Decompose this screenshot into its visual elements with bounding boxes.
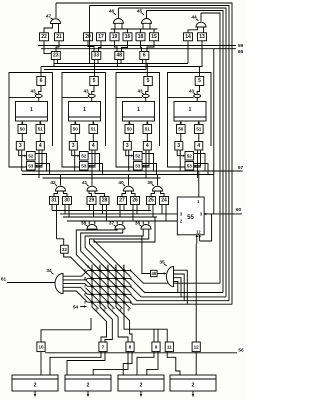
wire box31 down2: [56, 205, 58, 239]
arrow 49-35: [157, 272, 166, 275]
svg-text:4: 4: [99, 265, 101, 269]
wire 45 up-stem: [146, 11, 148, 19]
block C valve 43: [142, 94, 149, 97]
collector 37 label: [109, 221, 116, 227]
unit 2 bottom arrow: [34, 391, 37, 397]
unit 55 label: [187, 215, 194, 221]
block B reg 52: [80, 152, 89, 161]
wire 34 out 1: [63, 270, 88, 276]
block B wire 51-4: [92, 134, 94, 142]
block D wire valve to unit 1: [196, 98, 198, 102]
svg-text:5: 5: [198, 78, 201, 84]
svg-text:38: 38: [81, 221, 87, 227]
wire box8 down2: [123, 352, 132, 375]
block A counter 50: [18, 125, 27, 134]
block D counter 50: [177, 125, 186, 134]
svg-text:11: 11: [167, 345, 172, 350]
matrix column 5: [123, 265, 125, 307]
collector 46 label: [109, 9, 116, 15]
wire col1 to amp: [92, 307, 107, 342]
register 26: [131, 197, 140, 205]
collector 41: [87, 186, 97, 191]
amplifier 7: [99, 342, 107, 352]
matrix row 3: [88, 285, 129, 287]
register 22: [40, 33, 49, 41]
block D wire 4 down: [197, 150, 199, 178]
block A gate 3: [16, 142, 24, 151]
svg-text:5: 5: [147, 78, 150, 84]
wire 55 top stem: [198, 172, 200, 198]
svg-text:28: 28: [102, 198, 108, 204]
register 20: [84, 33, 93, 41]
collector 45 label: [137, 9, 144, 15]
block B outline: [62, 73, 106, 168]
bus segment y213.9 to 55 pin3: [60, 213, 177, 215]
block A wire 3 down: [21, 150, 23, 171]
wire 44 to box13: [203, 27, 205, 33]
collector 39: [153, 186, 163, 191]
block D wire 52 out: [194, 154, 205, 172]
svg-text:42: 42: [50, 180, 56, 186]
block D wire 3 down: [179, 150, 181, 171]
block C counter 51: [143, 125, 152, 134]
svg-text:4: 4: [146, 143, 149, 149]
wire bus line 1: [56, 3, 232, 304]
block C valve feed line: [116, 96, 142, 98]
net 65 label: [238, 49, 244, 55]
bus segment y217: [63, 216, 157, 218]
svg-text:3: 3: [177, 143, 180, 149]
svg-text:52: 52: [81, 153, 87, 158]
matrix column 3: [107, 265, 109, 307]
block B counter 50: [71, 125, 80, 134]
svg-text:53: 53: [135, 163, 141, 168]
wire box6b down: [143, 60, 147, 70]
register 28: [100, 197, 109, 205]
register 48: [115, 52, 124, 60]
unit 2 bottom arrow: [192, 391, 195, 397]
svg-text:31: 31: [51, 198, 57, 204]
wire 45 to box18: [141, 23, 144, 33]
register 13: [198, 33, 207, 41]
block A outline: [9, 73, 53, 168]
svg-text:53: 53: [28, 163, 34, 168]
amplifier 10: [37, 342, 45, 352]
block C unit 1: [123, 102, 155, 122]
svg-text:45: 45: [137, 9, 143, 15]
svg-text:9: 9: [155, 345, 158, 350]
collector 44 label: [191, 15, 198, 21]
matrix top labels: [87, 265, 124, 269]
matrix bottom labels: [96, 308, 130, 312]
block D valve feed line: [168, 96, 194, 98]
block D reg 52: [185, 152, 194, 161]
matrix column 2: [99, 265, 101, 307]
amplifier 9: [152, 342, 160, 352]
register 31: [50, 197, 59, 205]
collector 47 label: [46, 14, 53, 20]
wire row4 to bus: [128, 294, 229, 300]
block A wire 6 to valve: [39, 86, 41, 95]
svg-text:65: 65: [238, 49, 244, 55]
collector 38 label: [81, 221, 88, 227]
block C wire 52 out: [142, 154, 153, 172]
block A valve 43 label: [30, 89, 37, 95]
matrix diagonals: [86, 264, 131, 309]
wire box20 down: [88, 41, 94, 52]
svg-text:53: 53: [187, 163, 193, 168]
net 56 line: [45, 352, 237, 354]
matrix row 2: [88, 277, 129, 279]
wire box27 down: [120, 205, 124, 218]
register 29: [87, 197, 96, 205]
svg-text:7: 7: [84, 285, 86, 289]
wire 41 to left box: [89, 191, 92, 197]
svg-text:12: 12: [196, 230, 201, 235]
wire box17 down: [99, 41, 102, 52]
wire 47 to box22: [44, 24, 53, 33]
svg-text:29: 29: [89, 198, 95, 204]
block B wire valve to unit 1: [91, 98, 93, 102]
matrix row 5: [88, 301, 129, 303]
block C wire 51-4: [146, 134, 148, 142]
wire box48 down: [118, 60, 122, 67]
unit 55 pin1: [197, 199, 200, 204]
wire box24 down: [162, 205, 166, 222]
svg-text:39: 39: [147, 180, 153, 186]
wire box22 down: [44, 41, 51, 54]
unit 55 pin2: [180, 218, 183, 223]
svg-text:9: 9: [84, 301, 86, 305]
wire 44 up-stem: [200, 13, 202, 22]
block C wire 4 to 53: [142, 150, 149, 167]
svg-text:5: 5: [93, 78, 96, 84]
block A control box 6: [37, 77, 46, 86]
wire col3 to amp: [108, 307, 128, 342]
block D counter 51: [195, 125, 204, 134]
block A reg 52: [27, 152, 36, 161]
svg-text:61: 61: [1, 277, 7, 283]
bus segment y210.5: [52, 210, 151, 212]
wire 47 up-stem: [55, 3, 57, 18]
amplifier 8: [126, 342, 134, 352]
wire box28 down: [103, 205, 107, 222]
svg-text:4: 4: [92, 143, 95, 149]
wire fan-in 5: [94, 217, 155, 270]
register 32: [61, 245, 69, 253]
svg-text:2: 2: [115, 265, 117, 269]
unit 2: [12, 375, 58, 391]
wire 38 up-stems: [89, 221, 95, 224]
collector 42: [56, 186, 66, 191]
distributor 35: [167, 267, 174, 287]
wire 41 to right box: [95, 191, 105, 197]
register 17: [97, 33, 106, 41]
unit 2 bottom arrow: [87, 391, 90, 397]
svg-text:34: 34: [46, 268, 52, 274]
wire bus line 5: [201, 13, 220, 283]
block A valve feed line: [9, 96, 35, 98]
svg-text:56: 56: [238, 348, 244, 354]
svg-text:30: 30: [64, 198, 70, 204]
svg-text:13: 13: [199, 34, 205, 40]
register 33: [92, 52, 101, 60]
net 61 label: [1, 277, 7, 283]
unit 2: [118, 375, 164, 391]
svg-text:52: 52: [28, 153, 34, 158]
wire 34 out 3: [63, 284, 88, 287]
wire 39 up-stem: [157, 175, 159, 186]
wire box15 down: [147, 41, 154, 52]
svg-text:50: 50: [73, 127, 79, 132]
block A wire 3 to 52: [19, 150, 27, 157]
svg-text:35: 35: [159, 260, 165, 266]
svg-text:1: 1: [30, 107, 33, 113]
wire 40 to right box: [132, 191, 136, 197]
block B counter 51: [89, 125, 98, 134]
distributor 34 label: [46, 268, 53, 274]
distributor 35 label: [159, 260, 166, 266]
block C reg 52: [134, 152, 143, 161]
wire bus line 2: [90, 6, 230, 301]
svg-text:48: 48: [117, 53, 123, 59]
wire drop to 5C: [146, 64, 148, 77]
block D arrow 51 up: [198, 121, 201, 124]
wire 39 to right box: [161, 191, 165, 197]
svg-text:50: 50: [178, 127, 184, 132]
wire box12 down: [195, 352, 197, 375]
block C wire 4 down: [145, 150, 147, 178]
wire 34 out 2: [63, 278, 88, 280]
wire 38 down-stem: [91, 228, 93, 231]
collector 46: [113, 19, 123, 24]
wire box8 down: [93, 352, 128, 375]
svg-text:6: 6: [87, 265, 89, 269]
bus segment y221 to 55 pin2: [67, 220, 177, 222]
block C wire 53 out: [142, 164, 156, 175]
block D wire 4 to 53: [194, 150, 201, 167]
wire 35 out 3: [174, 278, 182, 297]
net 61 line: [7, 282, 55, 284]
block D reg 53: [185, 162, 194, 171]
svg-text:53: 53: [81, 163, 87, 168]
svg-text:2: 2: [140, 383, 143, 389]
block C gate 3: [123, 142, 131, 151]
svg-text:18: 18: [138, 34, 144, 40]
svg-text:26: 26: [132, 198, 138, 204]
wire 40 to left box: [122, 191, 126, 197]
block B wire 3 to 52: [72, 150, 80, 157]
svg-text:1: 1: [189, 107, 192, 113]
wire 46 up-stem: [117, 8, 119, 19]
wire drop to 6A: [40, 67, 42, 77]
svg-text:49: 49: [151, 271, 156, 276]
wire box7 down2: [67, 352, 105, 375]
collector 36: [141, 225, 151, 230]
block C control box 5: [144, 77, 153, 86]
block C wire valve to unit 1: [145, 98, 147, 102]
svg-text:1: 1: [137, 107, 140, 113]
svg-text:33: 33: [94, 53, 100, 59]
wire box7 down: [50, 352, 101, 375]
bus segment y63.5: [54, 63, 188, 65]
svg-text:1: 1: [123, 265, 125, 269]
block B wire 4 down: [91, 150, 93, 178]
wire 36 up-stems: [143, 221, 149, 224]
wire 44 to box14: [188, 27, 198, 33]
block A wire 53 out: [35, 164, 49, 175]
wire box13 down: [200, 41, 203, 77]
collector 40 label: [118, 180, 125, 186]
svg-text:3: 3: [107, 265, 109, 269]
wire amp9 taps: [154, 329, 158, 342]
block A wire valve to unit 1: [38, 98, 40, 102]
svg-text:15: 15: [151, 34, 157, 40]
wire box9 down: [137, 352, 154, 375]
unit 55 pin3: [180, 211, 183, 216]
unit 2: [65, 375, 111, 391]
wire box14 down: [187, 41, 189, 64]
wire bus2 down-stem: [89, 6, 91, 65]
wire col5 to amp11: [124, 307, 167, 342]
block D gate 3: [175, 142, 183, 151]
wire 49 feed: [142, 236, 151, 274]
svg-text:6: 6: [143, 53, 146, 59]
wire box10 up: [41, 318, 91, 342]
register 30: [63, 197, 72, 205]
collector 41 label: [82, 180, 89, 186]
block A wire 4 down: [38, 150, 40, 178]
wire 55 pin12 arrows: [196, 235, 201, 244]
matrix crosspoint dots: [91, 269, 126, 303]
wire fan-in 2: [81, 229, 123, 270]
svg-text:12: 12: [194, 345, 200, 350]
block C gate 4: [143, 142, 151, 151]
svg-text:22: 22: [41, 34, 47, 40]
bus line y174.5: [22, 174, 214, 176]
wire 42 to left box: [54, 191, 58, 197]
svg-text:19: 19: [112, 34, 118, 40]
block C arrow 50 up: [128, 121, 131, 124]
wire box19 down: [115, 41, 118, 52]
svg-text:51: 51: [145, 127, 151, 132]
svg-text:4: 4: [197, 143, 200, 149]
wire col2 to amp: [100, 307, 112, 342]
block D wire 51-4: [198, 134, 200, 142]
block A wire 50-3: [21, 134, 23, 142]
wire 35 out 2: [174, 274, 185, 301]
wire 55 bottom loop: [200, 214, 212, 241]
block B arrow 51 up: [92, 121, 95, 124]
wire 39 to left box: [151, 191, 155, 197]
svg-text:50: 50: [20, 127, 26, 132]
wire col4 to amp: [116, 307, 132, 342]
block A gate 4: [36, 142, 44, 151]
svg-text:1: 1: [83, 107, 86, 113]
block B wire 52 out: [88, 154, 99, 172]
unit 2 bottom arrow: [140, 391, 143, 397]
svg-text:20: 20: [85, 34, 91, 40]
wire drop to 5B: [94, 70, 96, 77]
block C counter 50: [125, 125, 134, 134]
net 57 label: [238, 165, 244, 171]
unit 55 pin12: [196, 230, 201, 235]
collector 39 label: [147, 180, 154, 186]
block D unit 1: [174, 102, 206, 122]
bus segment y69.5: [44, 69, 146, 71]
block D valve 43: [194, 94, 201, 97]
svg-text:6: 6: [40, 78, 43, 84]
svg-text:24: 24: [161, 198, 167, 204]
block A wire 4 to 53: [35, 150, 42, 167]
block A wire 51-4: [39, 134, 41, 142]
svg-text:16: 16: [125, 34, 131, 40]
block C valve 43 label: [137, 89, 144, 95]
register 23: [51, 52, 60, 60]
block B wire 50-3: [74, 134, 76, 142]
bus line y178: [43, 177, 161, 179]
wire row2 to bus: [128, 278, 223, 292]
net 59 line: [38, 45, 236, 47]
block B arrow 50 up: [74, 121, 77, 124]
svg-text:3: 3: [126, 143, 129, 149]
svg-text:37: 37: [109, 221, 115, 227]
wire 46 to box19: [114, 23, 117, 33]
block B gate 4: [89, 142, 97, 151]
svg-text:2: 2: [192, 383, 195, 389]
svg-text:3: 3: [72, 143, 75, 149]
wire 34 out 5: [63, 291, 88, 302]
block D gate 4: [195, 142, 203, 151]
net 57 line: [22, 170, 243, 172]
block B unit 1: [69, 102, 101, 122]
register 6: [140, 52, 149, 60]
block C wire 5 to valve: [146, 86, 148, 95]
collector 36 label: [135, 221, 142, 227]
matrix 54 label: [73, 305, 87, 311]
wire 47 to box21: [58, 24, 60, 33]
svg-text:2: 2: [34, 383, 37, 389]
svg-text:25: 25: [148, 198, 154, 204]
collector 42 label: [50, 180, 57, 186]
wire 35 out 1: [174, 270, 188, 304]
wire box11 down: [167, 352, 180, 375]
block A reg 53: [27, 162, 36, 171]
collector 44: [196, 22, 206, 27]
register 24: [160, 197, 169, 205]
net 60 line: [204, 49, 242, 216]
matrix row 4: [88, 293, 129, 295]
wire fan-in 3: [85, 229, 143, 270]
wire box29 down: [90, 205, 94, 218]
wire box26 down: [133, 205, 137, 222]
svg-text:52: 52: [135, 153, 141, 158]
block C wire 3 down: [128, 150, 130, 171]
block A arrow 50 up: [21, 121, 24, 124]
wire box23 down: [54, 60, 58, 67]
wire box18 down: [141, 41, 142, 52]
svg-text:27: 27: [119, 198, 125, 204]
svg-text:17: 17: [98, 34, 104, 40]
net 59 label: [238, 43, 244, 49]
wire 40 up-stem: [128, 175, 130, 186]
register 18: [136, 33, 145, 41]
svg-text:46: 46: [109, 9, 115, 15]
block C outline: [116, 73, 160, 168]
svg-text:14: 14: [185, 34, 191, 40]
svg-text:55: 55: [187, 215, 194, 221]
unit 55 pin5: [200, 211, 203, 216]
